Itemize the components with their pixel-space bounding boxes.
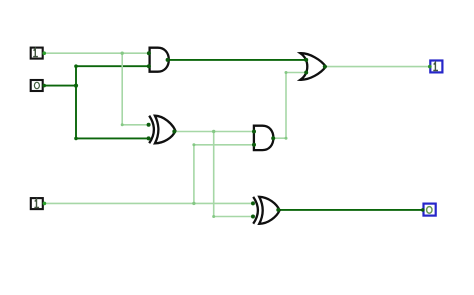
pin dot output carry	[428, 65, 432, 69]
pin dot input Cin	[43, 202, 47, 206]
wire B to XOR1 input 2 (value 0)	[76, 137, 149, 139]
pin dot output sum	[421, 208, 425, 212]
pin dot XOR1 output	[172, 130, 176, 134]
xor-gate U2 (XOR1)	[149, 116, 175, 144]
input A box	[31, 48, 43, 59]
corner dot A branch bend	[121, 123, 124, 126]
pin dot AND2 input 1	[252, 130, 256, 134]
wire B input to junction (value 0)	[44, 85, 76, 87]
input B value label 0	[34, 82, 39, 88]
corner dot XOR1 branch bend	[212, 215, 215, 218]
wire XOR1 output to AND2 input 1 (value 1)	[175, 131, 255, 133]
pin dot OR output	[323, 65, 327, 69]
pin dot input A	[42, 51, 46, 55]
input Cin value label 1	[34, 199, 39, 207]
pin dot AND1 input 1	[147, 51, 151, 55]
xor-gate U4 (XOR2)	[253, 197, 279, 224]
pin dot AND2 output	[271, 136, 275, 140]
and-gate U1 (AND1)	[150, 48, 169, 72]
and-gate U3 (AND2)	[254, 126, 274, 150]
junction B branch	[74, 84, 78, 88]
corner dot AND2 out bend upper	[285, 71, 288, 74]
pin dot input B	[42, 84, 46, 88]
input B box	[31, 80, 43, 91]
pin dot OR input 1	[304, 58, 308, 62]
wire OR output to carry output box (value 1)	[326, 66, 430, 68]
pin dot XOR2 output	[276, 208, 280, 212]
corner dot Cin branch bend	[192, 143, 195, 146]
wire B to AND1 input 2 (value 0)	[76, 65, 149, 67]
input A value label 1	[33, 49, 38, 57]
pin dot XOR2 input 1	[251, 201, 255, 205]
junction XOR1 out branch	[212, 130, 215, 133]
wire A input to AND1 input 1 (value 1)	[44, 52, 149, 54]
wire Cin input to XOR2 input 1 (value 1)	[44, 202, 253, 204]
output sum box	[424, 204, 436, 216]
wire AND2 output to OR input 2 (value 1)	[273, 73, 306, 139]
wire AND1 output to OR input 1 (value 0)	[168, 59, 307, 61]
pin dot AND1 input 2	[147, 64, 151, 68]
wire XOR2 output to sum output box (value 0)	[279, 209, 423, 211]
junction Cin branch	[192, 202, 195, 205]
wire A branch down to XOR1 input 1 (value 1)	[122, 53, 148, 125]
corner dot B wire bottom bend	[74, 137, 78, 141]
input Cin box	[31, 198, 43, 209]
pin dot XOR1 input 2	[147, 136, 151, 140]
pin dot AND1 output	[166, 58, 170, 62]
pin dot OR input 2	[304, 71, 308, 75]
output sum value label 0	[427, 207, 432, 214]
corner dot AND2 out bend lower	[285, 137, 288, 140]
wire Cin branch up to AND2 input 2 (value 1)	[194, 145, 254, 204]
wire B vertical bus (value 0)	[75, 66, 77, 138]
output carry box	[430, 61, 442, 73]
or-gate U5 (OR)	[300, 53, 326, 80]
output carry value label 1	[433, 62, 438, 70]
pin dot AND2 input 2	[252, 143, 256, 147]
pin dot XOR1 input 1	[147, 123, 151, 127]
junction A branch	[121, 52, 124, 55]
corner dot B wire top bend	[74, 64, 78, 68]
pin dot XOR2 input 2	[251, 215, 255, 219]
wire XOR1 branch down to XOR2 input 2 (value 1)	[214, 132, 253, 217]
